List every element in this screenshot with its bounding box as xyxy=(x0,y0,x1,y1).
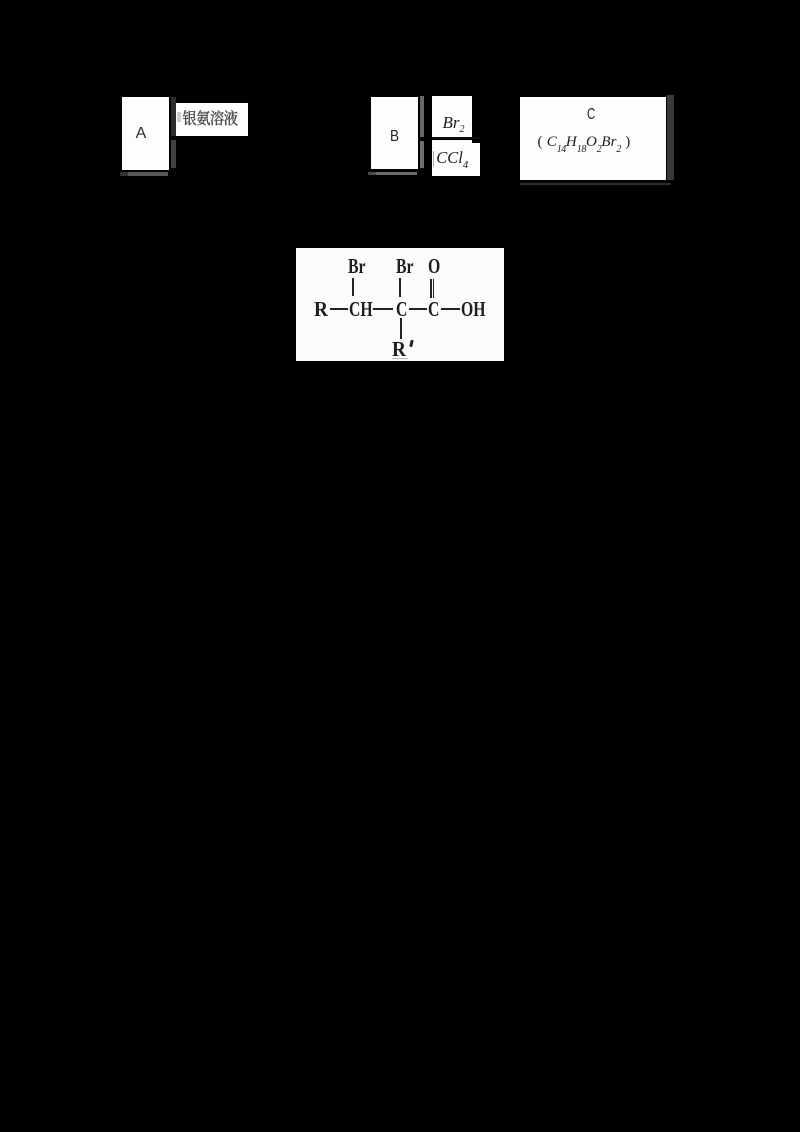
bond C to OH xyxy=(441,308,460,310)
CJK character 液 xyxy=(224,110,237,125)
single bond Br to C xyxy=(399,278,401,297)
reagent box Br2 xyxy=(432,96,472,137)
double bond O to C (right stroke) xyxy=(433,279,435,298)
box A xyxy=(122,97,170,169)
formula ( C14H18O2Br2 ) xyxy=(538,135,631,157)
shadow right of box A (lower) xyxy=(171,140,176,168)
atom label Br (middle) xyxy=(396,256,413,277)
label box 银氨溶液 xyxy=(176,103,247,135)
text Br2 xyxy=(443,114,465,138)
bond C to C xyxy=(409,308,428,310)
shadow bottom-left cap of box B xyxy=(368,172,376,175)
box C xyxy=(520,97,666,180)
label C xyxy=(587,107,601,123)
faint fold line in CCl4 box xyxy=(433,151,434,167)
bond CH to C xyxy=(373,308,393,310)
CJK character 氨 xyxy=(197,110,210,125)
shadow right of box B (upper) xyxy=(420,96,424,136)
shadow right of box C xyxy=(667,95,674,180)
shadow right of box A (upper) xyxy=(171,97,176,137)
double bond O to C (left stroke) xyxy=(430,279,432,298)
solvent box CCl4 xyxy=(432,140,480,175)
faint underline below R' xyxy=(392,358,408,359)
single bond Br to CH xyxy=(352,278,354,296)
shadow bottom-left cap of box A xyxy=(120,172,128,176)
notch top-right of CCl4 box xyxy=(472,140,480,143)
CJK character 溶 xyxy=(211,110,224,125)
shadow right of box B (lower) xyxy=(420,141,424,168)
structural formula panel xyxy=(296,248,504,361)
bond C down to R' xyxy=(400,318,402,339)
CJK character 银 xyxy=(183,110,196,125)
atom label C (center) xyxy=(396,299,407,320)
text CCl4 xyxy=(436,149,468,174)
atom label CH xyxy=(349,299,373,320)
text 银氨溶液 (drawn as vector glyphs) xyxy=(0,0,800,200)
atom label C (carboxyl) xyxy=(428,299,439,320)
shadow bottom of box C xyxy=(520,183,671,185)
atom label R' xyxy=(392,339,406,360)
atom label Br (left) xyxy=(348,256,365,277)
label B xyxy=(390,129,407,145)
fraction line xyxy=(432,137,480,139)
label A xyxy=(136,126,156,141)
small gray mark inside label box xyxy=(177,112,181,123)
atom label O xyxy=(428,256,440,277)
prime mark of R' xyxy=(409,340,414,347)
bond R to CH xyxy=(330,308,348,310)
shadow bottom of box B xyxy=(368,172,417,175)
atom label R xyxy=(314,299,328,320)
shadow bottom of box A xyxy=(120,172,169,176)
atom label OH xyxy=(461,299,486,320)
box B xyxy=(371,97,418,169)
